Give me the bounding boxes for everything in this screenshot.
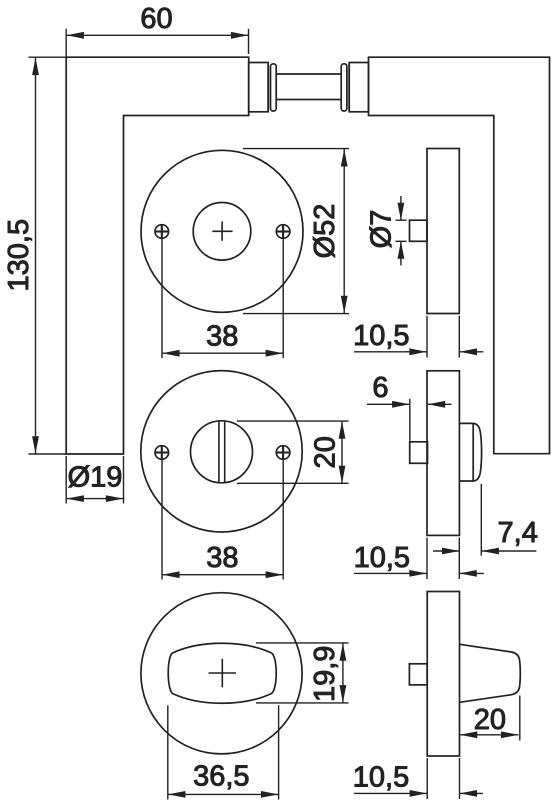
svg-text:130,5: 130,5 xyxy=(3,219,35,292)
svg-text:6: 6 xyxy=(372,372,388,404)
svg-text:Ø19: Ø19 xyxy=(68,461,123,493)
svg-text:Ø7: Ø7 xyxy=(366,210,398,249)
svg-text:7,4: 7,4 xyxy=(498,517,538,549)
svg-text:20: 20 xyxy=(474,704,506,736)
svg-text:10,5: 10,5 xyxy=(353,762,409,794)
svg-text:10,5: 10,5 xyxy=(353,320,409,352)
svg-text:60: 60 xyxy=(140,3,172,35)
svg-text:19,9: 19,9 xyxy=(309,646,341,702)
svg-text:10,5: 10,5 xyxy=(354,542,410,574)
svg-text:36,5: 36,5 xyxy=(193,761,249,793)
svg-text:Ø52: Ø52 xyxy=(309,204,341,259)
svg-text:20: 20 xyxy=(310,436,342,468)
svg-text:38: 38 xyxy=(206,320,238,352)
svg-text:38: 38 xyxy=(206,542,238,574)
